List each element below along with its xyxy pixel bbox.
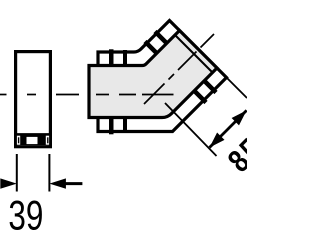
outer shell of elbow (white body with collar) (98, 21, 227, 132)
seal band center window (27, 137, 38, 144)
grey pipe body (89, 31, 217, 118)
rib A1 upper (155, 32, 168, 45)
rib A1 lower (204, 80, 217, 93)
seal band right slot (46, 136, 49, 145)
seal band right tick (47, 137, 48, 143)
seal band left slot (17, 136, 20, 145)
dimension 39 extension lines (16, 154, 18, 192)
seal band left tick (18, 137, 19, 143)
angled-end rib bars upper band (145, 32, 216, 103)
extension line 2 (from end face) (223, 74, 248, 99)
svg-text:39: 39 (8, 191, 43, 239)
collar rib R2 (left end) (123, 50, 127, 133)
angled centerline (144, 34, 214, 104)
collar rib R1 (left end, vertical bar with overhang) (109, 49, 114, 134)
horizontal centerline (0, 94, 174, 96)
rim inner line on angled end (175, 35, 213, 73)
dimension 39 arrows (0, 178, 82, 188)
extension line 1 (from bend center) (165, 103, 217, 156)
rib A2 lower (194, 90, 207, 103)
adapter inner line (16, 133, 51, 135)
adapter seal band (16, 136, 49, 146)
adapter piece outline (16, 52, 51, 147)
rib A2 upper (145, 42, 158, 55)
dimension 85 arrow (210, 110, 247, 147)
